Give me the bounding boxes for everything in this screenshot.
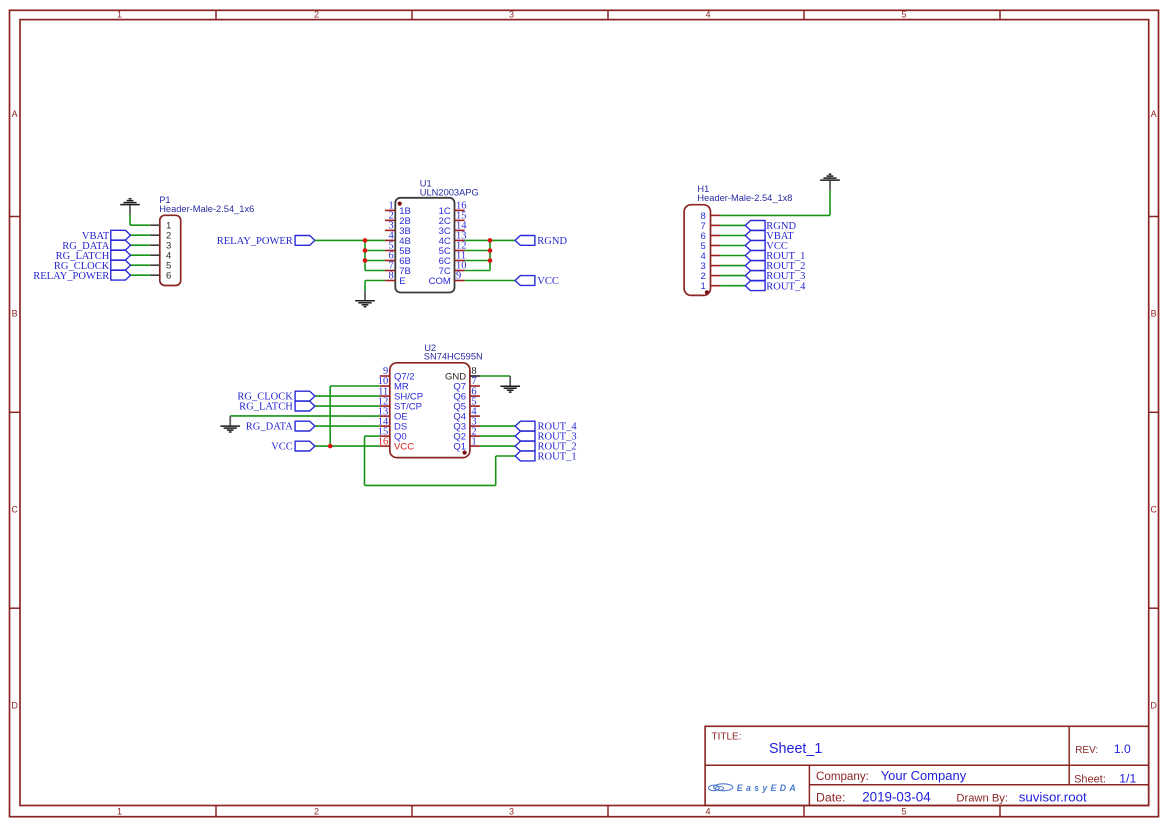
svg-text:ROUT_1: ROUT_1 [538, 452, 577, 463]
svg-text:EasyEDA: EasyEDA [737, 783, 799, 793]
svg-text:RG_DATA: RG_DATA [246, 422, 293, 433]
title block [705, 726, 1149, 805]
svg-text:suvisor.root: suvisor.root [1019, 790, 1087, 805]
svg-text:TITLE:: TITLE: [712, 731, 742, 742]
U1 pin 10 (7C) [439, 261, 467, 277]
U1 pin 14 (3C) [439, 221, 468, 237]
U2 reference label [424, 343, 483, 362]
wire H1 pin 8 to ground [720, 190, 830, 215]
EasyEDA logo [709, 783, 800, 793]
U2 pin 11 (SH/CP) [378, 386, 423, 402]
ground (U2 OE) [220, 416, 240, 432]
svg-text:8: 8 [389, 271, 394, 282]
P1 pin 4 [150, 251, 171, 262]
P1 pin 1 [150, 221, 171, 232]
wire U2 to net ROUT_4 [480, 425, 515, 427]
svg-text:ULN2003APG: ULN2003APG [420, 187, 479, 197]
svg-text:VCC: VCC [271, 442, 293, 453]
svg-text:A: A [12, 109, 18, 119]
svg-text:1: 1 [471, 436, 476, 447]
wire U2 pin 13 (OE) to ground [230, 415, 380, 417]
svg-text:VCC: VCC [537, 276, 559, 287]
net flag ROUT_3 (U2 out) [515, 431, 576, 443]
junction at VCC wire [328, 444, 333, 449]
wire H1 to net VCC [720, 245, 745, 247]
net flag ROUT_3 (H1) [745, 271, 805, 283]
junction at U1 pin5 wire [363, 248, 368, 253]
IC U1 ULN2003APG body [395, 198, 454, 293]
svg-text:4: 4 [705, 10, 710, 20]
svg-text:RG_LATCH: RG_LATCH [239, 402, 293, 413]
H1 pin 5 [701, 241, 721, 252]
svg-text:1/1: 1/1 [1119, 771, 1136, 785]
svg-text:3: 3 [509, 10, 514, 20]
wire U1 pin 9 (COM) to VCC [465, 280, 515, 282]
svg-text:Header-Male-2.54_1x6: Header-Male-2.54_1x6 [159, 204, 254, 214]
svg-text:Drawn By:: Drawn By: [956, 793, 1008, 805]
net flag RG_LATCH (U2) [239, 401, 315, 413]
svg-text:Sheet_1: Sheet_1 [769, 741, 822, 757]
svg-text:1: 1 [117, 10, 122, 20]
P1 reference label [159, 195, 254, 214]
H1 pin 1 [701, 281, 721, 292]
net flag ROUT_2 (H1) [745, 261, 805, 273]
wire VCC to U2 [315, 445, 380, 447]
net flag RELAY_POWER [217, 236, 315, 248]
U2 pin 8 (GND) [445, 366, 480, 382]
wire H1 to net ROUT_4 [720, 285, 745, 287]
svg-text:2: 2 [314, 10, 319, 20]
svg-text:VCC: VCC [394, 442, 414, 453]
U2 pin 7 (Q7) [453, 376, 479, 392]
wire bus right of U1 (pins 10-13) [465, 240, 490, 270]
svg-text:Date:: Date: [816, 791, 845, 805]
net flag VBAT [82, 230, 131, 242]
junction at U1 pin13 wire [488, 238, 493, 243]
net flag VCC (U2) [271, 441, 315, 453]
svg-text:1: 1 [701, 281, 706, 292]
svg-text:2019-03-04: 2019-03-04 [862, 790, 931, 805]
net flag RGND [515, 236, 567, 248]
U2 pin 2 (Q2) [453, 426, 479, 442]
ground (U1 pin E) [355, 291, 375, 307]
net flag ROUT_1 (U2 out) [515, 451, 576, 463]
U1 pin 15 (2C) [439, 211, 467, 227]
U2 pin 3 (Q3) [453, 416, 479, 432]
ground (at P1 pin 1) [120, 199, 140, 215]
net flag RG_DATA [62, 240, 130, 252]
wire U1 pin 8 (E) to ground [365, 281, 385, 291]
svg-text:5: 5 [901, 10, 906, 20]
svg-text:6: 6 [166, 271, 171, 282]
wire P1 pin1 to ground [130, 215, 150, 225]
U1 pin 2 (2B) [385, 211, 411, 227]
svg-text:4: 4 [705, 806, 710, 816]
U1 pin-1 marker dot [398, 202, 402, 206]
wire RG_DATA to U2 [315, 425, 380, 427]
P1 pin 2 [150, 231, 171, 242]
U2 pin 5 (Q5) [453, 396, 479, 412]
U1 pin 1 (1B) [385, 201, 411, 217]
wire U2 pin 15 (Q0) to ROUT_1 [365, 436, 516, 485]
H1 pin 4 [701, 251, 721, 262]
svg-text:D: D [1150, 701, 1157, 711]
P1 pin 5 [150, 261, 171, 272]
net flag ROUT_4 (U2 out) [515, 421, 577, 433]
wire P1 to net RG_CLOCK [131, 264, 150, 266]
U1 pin 9 (COM) [429, 271, 465, 287]
svg-text:Header-Male-2.54_1x8: Header-Male-2.54_1x8 [697, 193, 792, 203]
wire H1 to net ROUT_3 [720, 275, 745, 277]
wire P1 to net RG_LATCH [131, 254, 150, 256]
U2 pin 4 (Q4) [453, 406, 479, 422]
svg-text:Company:: Company: [816, 770, 869, 783]
junction at U1 pin12 wire [488, 248, 493, 253]
net flag VBAT (H1) [745, 231, 794, 243]
U2 pin 14 (DS) [378, 416, 407, 432]
svg-text:B: B [1151, 309, 1157, 319]
H1 pin 6 [701, 231, 721, 242]
svg-text:A: A [1151, 109, 1157, 119]
H1 pin 7 [701, 221, 721, 232]
svg-text:B: B [12, 309, 18, 319]
net flag RG_CLOCK [54, 260, 131, 272]
junction at U1 pin11 wire [488, 258, 493, 263]
U1 pin 3 (3B) [385, 221, 411, 237]
U2 pin 15 (Q0) [378, 426, 407, 442]
svg-text:9: 9 [456, 271, 461, 282]
U1 pin 13 (4C) [439, 231, 467, 247]
svg-text:Sheet:: Sheet: [1074, 773, 1106, 785]
net flag ROUT_4 (H1) [745, 281, 806, 293]
junction at U1 pin6 wire [363, 258, 368, 263]
svg-text:E: E [399, 276, 405, 287]
U2 pin 6 (Q6) [453, 386, 479, 402]
svg-text:2: 2 [314, 806, 319, 816]
connector H1 Header-Male-2.54_1x8 [684, 205, 710, 296]
wire H1 to net RGND [720, 224, 745, 226]
H1 reference label [697, 184, 792, 203]
P1 pin 3 [150, 241, 171, 252]
svg-text:RELAY_POWER: RELAY_POWER [33, 271, 109, 282]
connector P1 Header-Male-2.54_1x6 [160, 215, 181, 285]
svg-text:5: 5 [901, 806, 906, 816]
U1 reference label [420, 179, 479, 198]
wire VCC to U2 pin 10 (MR) [330, 386, 380, 446]
U1 pin 12 (5C) [439, 241, 467, 257]
svg-text:C: C [11, 505, 18, 515]
svg-text:COM: COM [429, 276, 451, 287]
wire H1 to net ROUT_1 [720, 255, 745, 257]
svg-text:REV:: REV: [1075, 745, 1098, 756]
ground (U2 GND) [500, 376, 520, 392]
svg-text:Q1: Q1 [453, 442, 466, 453]
wire H1 to net VBAT [720, 235, 745, 237]
net flag RGND (H1) [745, 221, 796, 233]
U1 pin 7 (7B) [385, 261, 411, 277]
net flag RG_DATA (U2) [246, 421, 315, 433]
U2 pin-1 marker dot [463, 451, 467, 455]
net flag VCC (U1) [515, 276, 559, 288]
net flag RG_LATCH [56, 250, 131, 261]
H1 pin 3 [701, 261, 721, 272]
wire U2 to net ROUT_3 [480, 435, 515, 437]
H1 pin-1 marker dot [705, 290, 709, 294]
U1 pin 5 (5B) [385, 241, 411, 257]
U2 pin 10 (MR) [378, 376, 409, 392]
net flag RG_CLOCK (U2) [237, 391, 315, 403]
svg-text:RGND: RGND [537, 236, 567, 247]
svg-text:1: 1 [117, 806, 122, 816]
svg-text:ROUT_4: ROUT_4 [766, 281, 806, 292]
svg-text:1.0: 1.0 [1114, 742, 1131, 756]
U2 pin 13 (OE) [378, 406, 408, 422]
H1 pin 2 [701, 271, 721, 282]
svg-text:D: D [11, 701, 18, 711]
U1 pin 4 (4B) [385, 231, 411, 247]
U1 pin 8 (E) [385, 271, 406, 287]
net flag ROUT_2 (U2 out) [515, 441, 576, 453]
wire bus left of U1 (pins 4-7) [365, 240, 385, 270]
U2 pin 12 (ST/CP) [378, 396, 422, 412]
U1 pin 6 (6B) [385, 251, 411, 267]
junction at U1 pin4 wire [363, 238, 368, 243]
U2 pin 16 (VCC) [378, 436, 414, 452]
svg-text:C: C [1150, 505, 1157, 515]
U1 pin 11 (6C) [439, 251, 466, 267]
wire P1 to net RG_DATA [131, 244, 150, 246]
IC U2 SN74HC595N body [390, 363, 470, 458]
U2 pin 1 (Q1) [453, 436, 479, 452]
net flag RELAY_POWER [33, 270, 130, 282]
wire P1 to net VBAT [131, 234, 150, 236]
svg-text:Your Company: Your Company [881, 768, 967, 783]
U1 pin 16 (1C) [439, 201, 467, 217]
svg-text:3: 3 [509, 806, 514, 816]
wire H1 to net ROUT_2 [720, 265, 745, 267]
P1 pin 6 [150, 271, 171, 282]
U2 pin 9 (Q7/2) [380, 366, 415, 382]
wire U1 pin 13 to RGND [465, 239, 515, 241]
wire RG_CLOCK to U2 [315, 395, 380, 397]
svg-text:RELAY_POWER: RELAY_POWER [217, 236, 293, 247]
wire RELAY_POWER to U1 pin 4 [315, 239, 385, 241]
svg-text:SN74HC595N: SN74HC595N [424, 352, 483, 362]
wire U2 to net ROUT_2 [480, 445, 515, 447]
wire P1 to net RELAY_POWER [131, 274, 150, 276]
net flag ROUT_1 (H1) [745, 251, 805, 263]
wire U2 pin 8 (GND) to ground [480, 375, 510, 377]
H1 pin 8 [701, 211, 721, 222]
ground (H1 pin 8) [820, 174, 840, 190]
wire RG_LATCH to U2 [315, 405, 380, 407]
net flag VCC (H1) [745, 241, 788, 253]
